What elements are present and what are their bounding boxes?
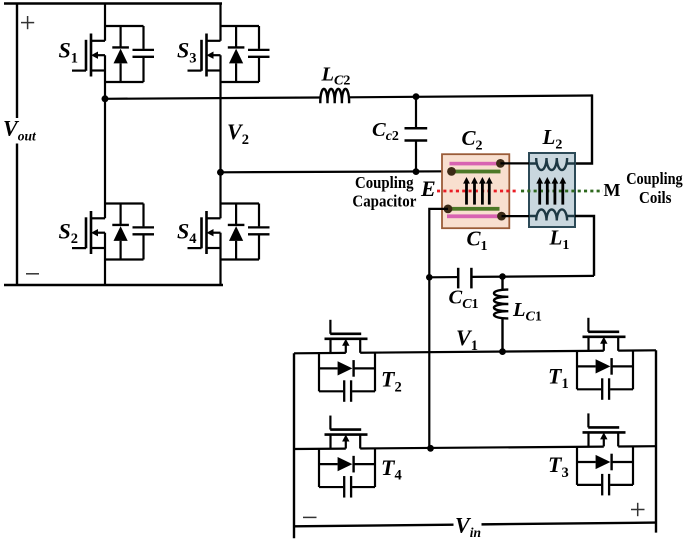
- coupling capacitor box: [442, 154, 509, 228]
- label + (Vin positive): [631, 503, 645, 516]
- label - (Vin negative): [303, 516, 317, 518]
- node: junction of LC2 wire and Cc2: [413, 93, 420, 100]
- node: terminal dot C2 pink plate right: [496, 159, 505, 168]
- capacitor Cc2 lower lead: [415, 142, 417, 172]
- svg-text:V1: V1: [456, 325, 478, 354]
- svg-text:Coils: Coils: [639, 188, 672, 207]
- wire: C1 pink plate to L1: [502, 215, 530, 217]
- wire: bridge midpoint wire to LC2: [105, 98, 320, 99]
- svg-text:Vin: Vin: [455, 512, 481, 540]
- wire: S3 drain leg: [219, 4, 221, 41]
- svg-text:L1: L1: [549, 226, 570, 254]
- coupling capacitor plate C2 outer (pink): [450, 162, 502, 166]
- wire: Vout left line lower segment: [16, 144, 18, 286]
- svg-text:Vout: Vout: [3, 116, 37, 144]
- svg-text:T3: T3: [548, 452, 569, 481]
- wire: LC2 to top right corner: [349, 96, 592, 98]
- wire: S4 source to bottom rail: [219, 233, 221, 285]
- svg-text:V2: V2: [227, 119, 249, 148]
- coupling capacitor plate C1 inner (green): [447, 207, 500, 211]
- svg-text:S4: S4: [177, 218, 197, 247]
- svg-text:M: M: [604, 180, 621, 200]
- capacitor CC1 plates: [457, 268, 460, 289]
- wire: left leg S1 source to S2 drain: [104, 55, 106, 218]
- svg-text:S3: S3: [177, 38, 197, 67]
- transistor T4 with body diode and snubber capacitor: [319, 416, 375, 498]
- node: junction dot LC1 bottom on V1 rail: [499, 348, 506, 355]
- inductor L1 winding: [529, 209, 575, 220]
- svg-text:LC2: LC2: [321, 64, 351, 89]
- wire: CC1 horizontal wire left part: [429, 276, 458, 278]
- green dotted flux line: [521, 190, 603, 193]
- label + (Vout positive): [21, 16, 34, 29]
- wire: S2 source to bottom rail: [104, 233, 106, 285]
- svg-text:C1: C1: [467, 227, 488, 255]
- wire: V1 rail segments: [294, 350, 656, 353]
- svg-text:S1: S1: [59, 38, 79, 67]
- svg-text:L2: L2: [542, 125, 563, 153]
- wire: bottom rail of output bridge: [4, 284, 223, 286]
- inductor LC1 vertical coil: [501, 277, 503, 352]
- svg-text:T1: T1: [548, 363, 569, 392]
- transistor T1 with body diode and snubber capacitor: [577, 318, 633, 400]
- transistor T2 with body diode and snubber capacitor: [319, 320, 375, 402]
- wire: Vout left line upper segment: [16, 4, 18, 119]
- wire: lower bridge left outline: [293, 353, 295, 538]
- wire: lower bridge second rail segments: [294, 446, 656, 449]
- node: junction dot on second rail: [427, 445, 434, 452]
- svg-text:C2: C2: [462, 126, 483, 154]
- inductor LC2: [320, 89, 349, 103]
- wire: right vertical down to L2: [575, 94, 592, 163]
- wire: L1 right terminal down to CC1 wire: [575, 216, 594, 276]
- node: V2 junction dot: [217, 169, 224, 176]
- capacitor Cc2 upper lead: [415, 97, 417, 128]
- svg-text:CC1: CC1: [449, 287, 479, 313]
- transistor S1 with body diode and snubber capacitor: [72, 26, 154, 82]
- node: junction dot at left bridge midpoint: [102, 95, 109, 102]
- svg-text:T4: T4: [381, 455, 402, 484]
- wire: top rail of output bridge: [4, 2, 222, 4]
- wire: V2 wire from right leg to coupling capacitor: [221, 171, 450, 172]
- transistor S2 with body diode and snubber capacitor: [72, 204, 154, 260]
- node: terminal dot C1 pink plate right: [497, 212, 506, 221]
- label - (Vout negative): [26, 273, 39, 275]
- wire: C1 green plate left then down to lower bridge: [429, 209, 448, 448]
- inductor L2 winding: [529, 158, 575, 170]
- svg-text:T2: T2: [381, 367, 402, 396]
- svg-text:Coupling: Coupling: [626, 169, 683, 188]
- wire: Vin bottom rail left segment: [294, 525, 454, 527]
- transistor S3 with body diode and snubber capacitor: [188, 26, 270, 82]
- magnetic field arrows in coupling coils: [536, 177, 543, 205]
- svg-text:Cc2: Cc2: [372, 119, 399, 144]
- wire: lower bridge right outline: [655, 350, 657, 532]
- transistor S4 with body diode and snubber capacitor: [188, 204, 270, 260]
- node: junction dot LC1 top: [499, 273, 506, 280]
- node: terminal dot C1 green plate left: [444, 205, 453, 214]
- coupling capacitor plate C1 outer (pink): [447, 214, 500, 218]
- coupling coils box: [529, 153, 575, 227]
- electric field arrows in coupling capacitor: [463, 177, 470, 205]
- svg-text:LC1: LC1: [512, 299, 542, 324]
- wire: Vin bottom rail right segment: [482, 523, 657, 525]
- node: terminal dot C2 green plate left: [447, 167, 456, 176]
- node: junction dot CC1 left: [426, 274, 433, 281]
- wire: CC1 horizontal wire right part: [471, 276, 594, 277]
- svg-text:S2: S2: [59, 218, 79, 247]
- svg-text:E: E: [420, 176, 436, 201]
- red dotted field line: [437, 190, 517, 193]
- wire: S1 drain leg: [104, 4, 106, 41]
- coupling capacitor plate C2 inner (green): [454, 170, 501, 174]
- transistor T3 with body diode and snubber capacitor: [577, 413, 633, 495]
- capacitor Cc2 plates: [405, 127, 428, 130]
- node: junction of V2 wire and Cc2: [413, 168, 420, 175]
- wire: right leg S3 source to S4 drain: [219, 55, 221, 218]
- svg-text:Coupling: Coupling: [355, 173, 414, 192]
- svg-text:Capacitor: Capacitor: [352, 191, 416, 210]
- wire: C2 pink plate to L2: [500, 162, 529, 164]
